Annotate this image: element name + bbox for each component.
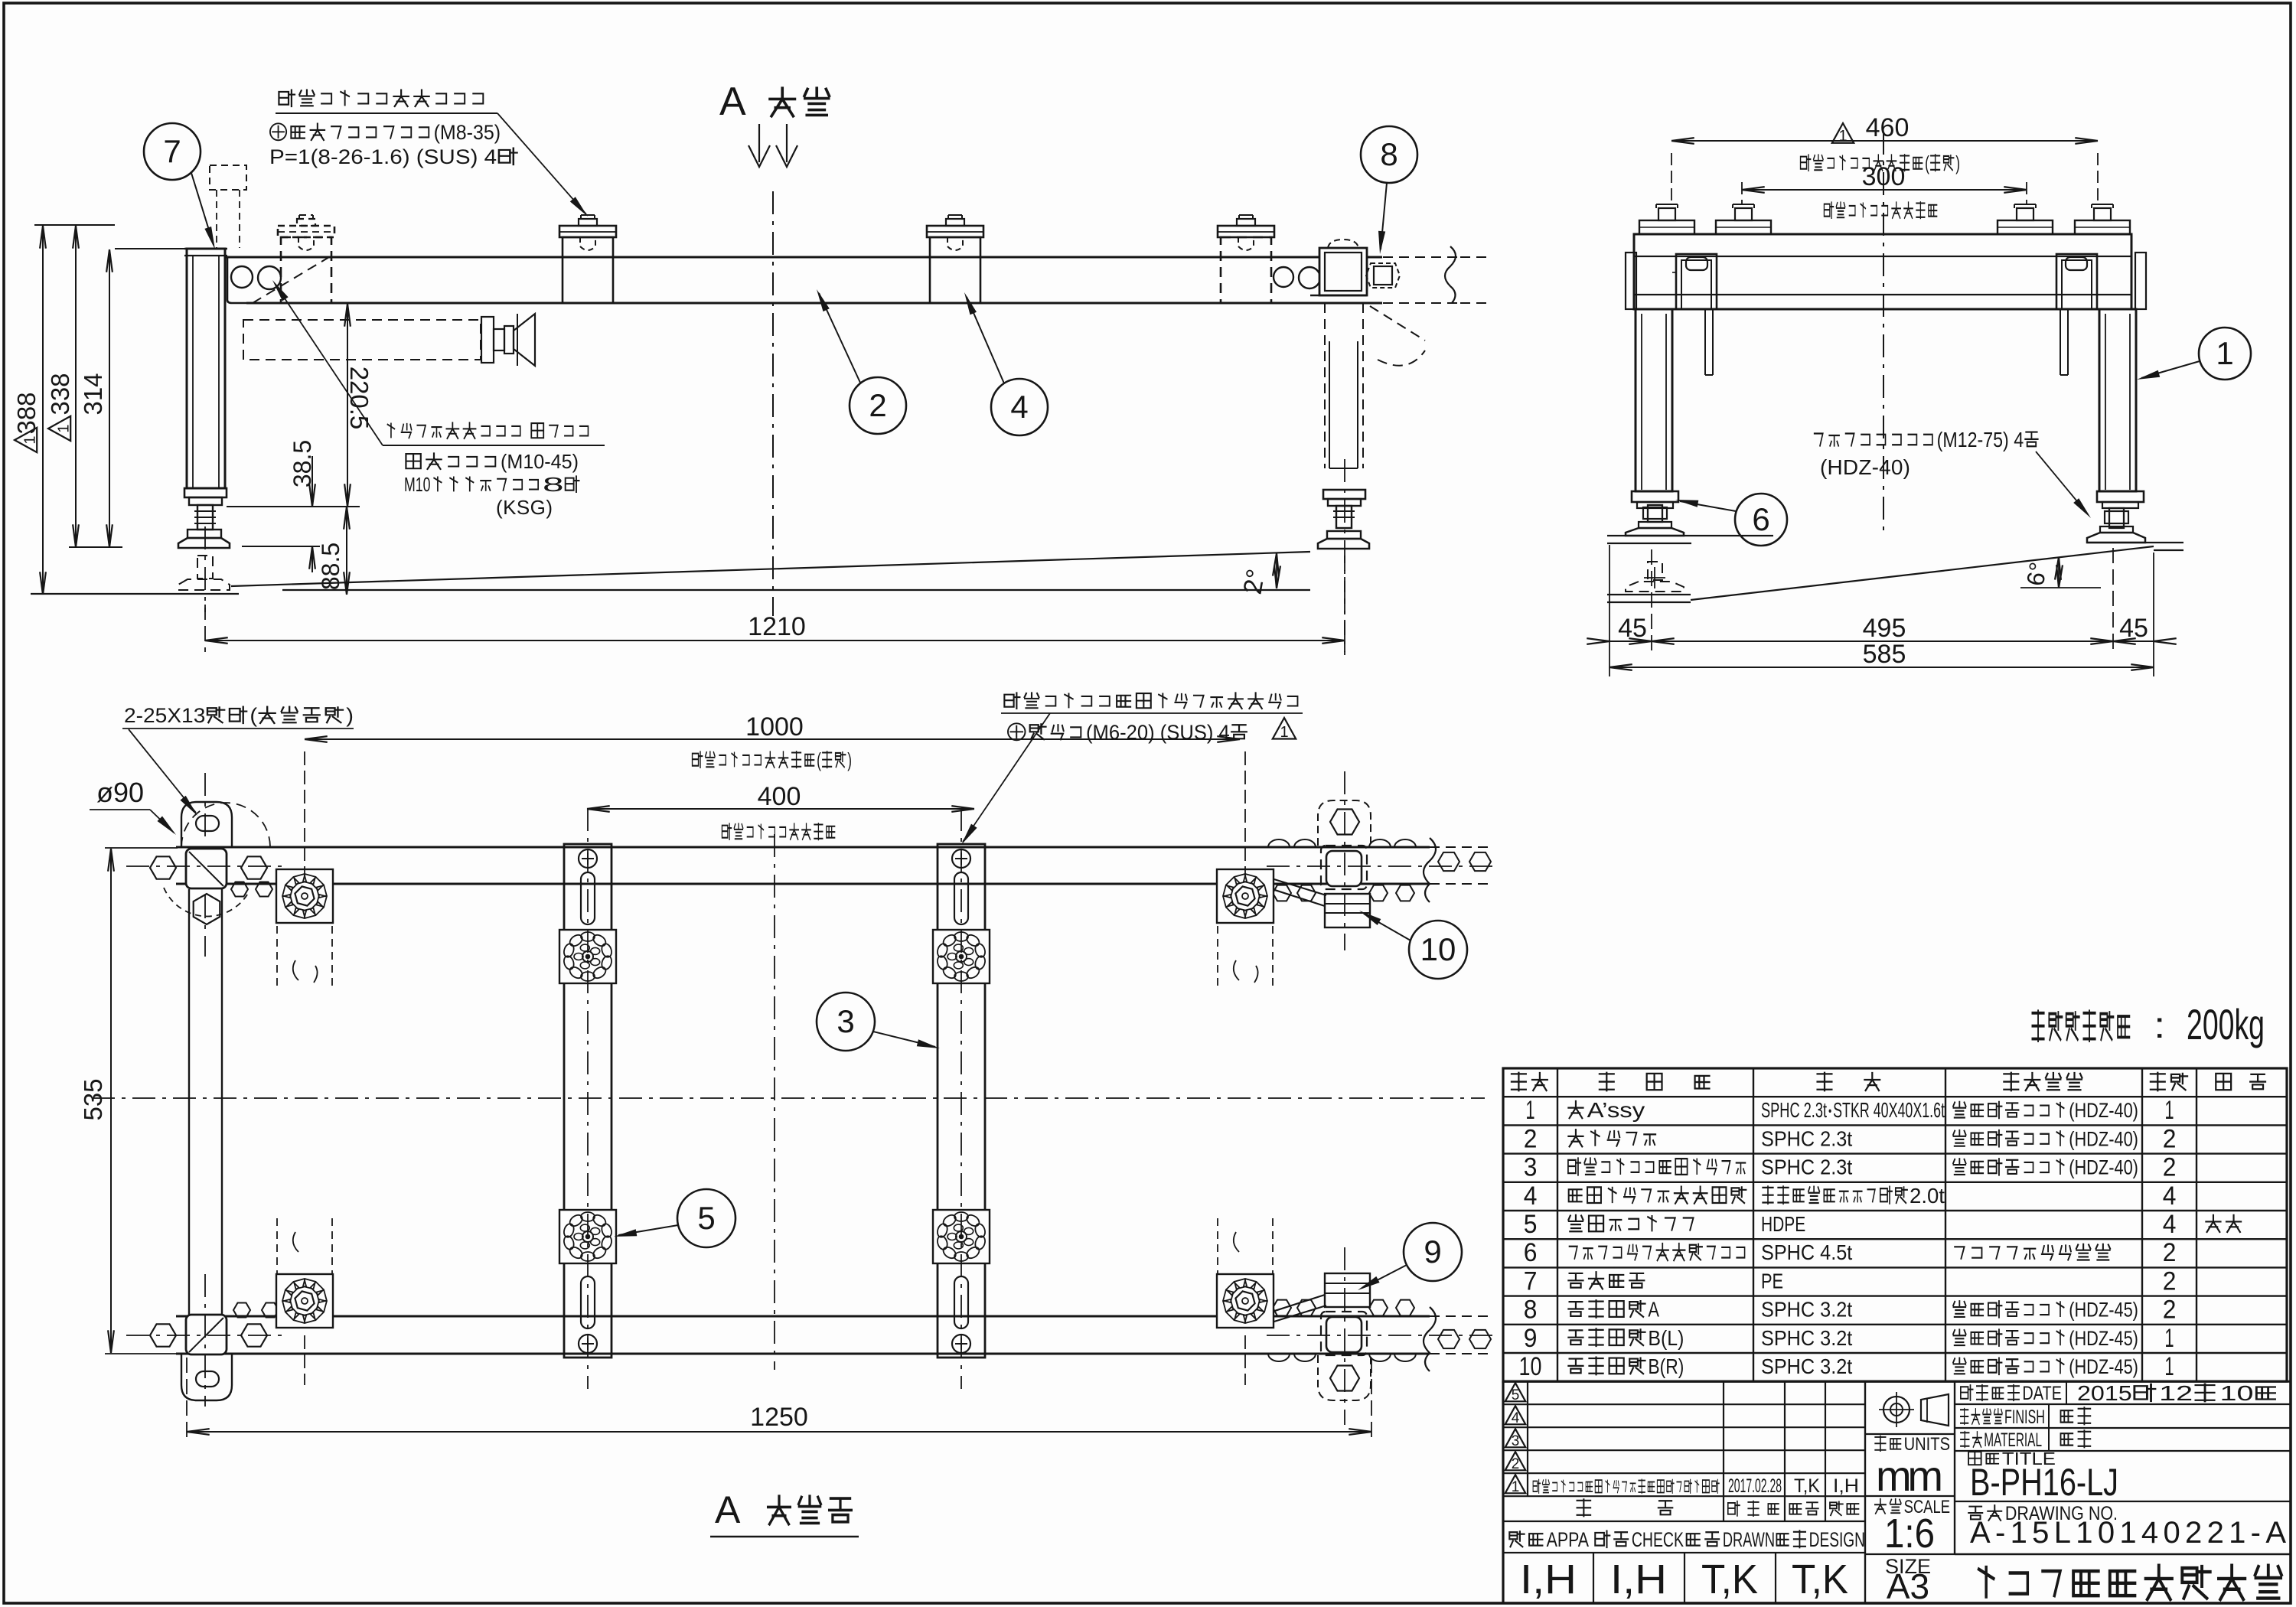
link bracket B(R) part10 xyxy=(1325,894,1370,927)
svg-text:1: 1 xyxy=(1525,1096,1534,1125)
svg-text:4: 4 xyxy=(1512,1410,1520,1426)
leg L foot ghost (tilted position, dashed) xyxy=(197,556,213,579)
max load note xyxy=(2032,1011,2129,1041)
svg-text:SPHC 4.5t: SPHC 4.5t xyxy=(1761,1240,1852,1264)
svg-text:(HDZ-45): (HDZ-45) xyxy=(2069,1356,2138,1379)
svg-text:314: 314 xyxy=(79,373,107,415)
svg-text:38.5: 38.5 xyxy=(289,440,316,487)
plan starburst washers at leg joints xyxy=(276,869,333,923)
front view: section centerline xyxy=(772,191,774,616)
balloon 7 xyxy=(144,123,201,180)
svg-text:(HDZ-40): (HDZ-40) xyxy=(1820,455,1910,479)
svg-text:2: 2 xyxy=(2163,1238,2177,1267)
svg-text:8: 8 xyxy=(1524,1296,1538,1325)
kiji row xyxy=(1577,1499,1591,1516)
svg-text:300: 300 xyxy=(1862,162,1906,191)
plan: yoko-frame top band xyxy=(176,846,1430,849)
side view legs xyxy=(1636,309,1672,491)
svg-text:3: 3 xyxy=(1524,1153,1538,1182)
hidden cap bolt at leg top (dashed) xyxy=(210,165,246,190)
plan hex bolts near left legs xyxy=(150,856,176,878)
plan leg cap bottom-left xyxy=(181,1354,232,1400)
svg-text:8: 8 xyxy=(1380,136,1397,172)
svg-text:9: 9 xyxy=(1424,1234,1441,1270)
dims 45/495/45/585 xyxy=(1609,545,1610,676)
title info rows xyxy=(1955,1380,2291,1382)
svg-text:338: 338 xyxy=(46,373,74,415)
svg-text:ø90: ø90 xyxy=(96,777,144,808)
svg-text:APPA: APPA xyxy=(1547,1528,1590,1551)
svg-text:12: 12 xyxy=(2159,1381,2193,1405)
left leg tube verticals in plan xyxy=(188,889,190,1315)
svg-text:(M10-45): (M10-45) xyxy=(501,450,579,473)
balloon 4 xyxy=(991,379,1048,435)
revision triangles xyxy=(1505,1383,1526,1403)
svg-text:388: 388 xyxy=(12,392,41,434)
balloon 6 xyxy=(1735,494,1787,546)
dim 88.5 xyxy=(346,507,347,595)
svg-text:): ) xyxy=(847,749,852,771)
leg L foot xyxy=(188,530,221,538)
right end frame fixing holes xyxy=(1274,267,1293,287)
svg-text:A: A xyxy=(719,80,746,124)
balloon 1 xyxy=(2199,328,2251,380)
dim 460 xyxy=(1671,153,1672,205)
svg-text:2015: 2015 xyxy=(2077,1381,2132,1405)
svg-text:4: 4 xyxy=(1010,389,1028,425)
svg-text:M10: M10 xyxy=(404,474,430,496)
svg-text:1000: 1000 xyxy=(745,712,804,742)
svg-text:9: 9 xyxy=(1524,1324,1538,1353)
mounting clamp part4 at x=1248 xyxy=(927,226,983,237)
svg-text:I,H: I,H xyxy=(1833,1475,1859,1497)
svg-text:460: 460 xyxy=(1866,113,1910,142)
svg-text:B(L): B(L) xyxy=(1648,1326,1684,1350)
svg-text:7: 7 xyxy=(163,133,181,169)
svg-text:B(R): B(R) xyxy=(1648,1354,1684,1378)
svg-text:1: 1 xyxy=(1280,724,1288,741)
svg-text:(HDZ-45): (HDZ-45) xyxy=(2069,1299,2138,1322)
company name xyxy=(1979,1566,2281,1599)
balloon 2 xyxy=(850,377,906,434)
stored adjuster bolt (dashed) xyxy=(243,320,481,360)
revision row 1 entry xyxy=(1533,1479,1719,1493)
svg-text:45: 45 xyxy=(1618,614,1647,643)
dim 1250 xyxy=(186,1358,188,1442)
svg-text:(M6-20) (SUS) 4: (M6-20) (SUS) 4 xyxy=(1086,721,1230,744)
svg-text:2017.02.28: 2017.02.28 xyxy=(1728,1475,1782,1497)
svg-text:I,H: I,H xyxy=(1610,1556,1667,1602)
svg-text:5: 5 xyxy=(1524,1210,1538,1239)
svg-text:220.5: 220.5 xyxy=(345,367,373,430)
svg-text:(M12-75) 4: (M12-75) 4 xyxy=(1937,427,2024,451)
svg-text:SPHC 3.2t: SPHC 3.2t xyxy=(1761,1298,1852,1322)
leg L adjuster plate (part6) xyxy=(184,488,227,497)
dim 338 xyxy=(75,226,77,547)
svg-text:3: 3 xyxy=(1512,1433,1520,1449)
svg-text:P=1(8-26-1.6) (SUS) 4: P=1(8-26-1.6) (SUS) 4 xyxy=(269,145,497,168)
plan loading frames (part3) xyxy=(564,844,612,1358)
mounting clamp part4 at x=400 xyxy=(278,226,334,237)
svg-text:2: 2 xyxy=(2163,1296,2177,1325)
svg-text:B-PH16-LJ: B-PH16-LJ xyxy=(1970,1461,2118,1504)
leg L front (part1) xyxy=(187,249,225,488)
hex bolts left joints xyxy=(231,882,248,897)
svg-text:6: 6 xyxy=(1524,1238,1538,1267)
svg-text:A’ssy: A’ssy xyxy=(1587,1098,1645,1122)
label: outdoor unit fixing bolt xyxy=(279,90,483,106)
svg-text:T,K: T,K xyxy=(1792,1556,1848,1602)
svg-text:4: 4 xyxy=(2163,1210,2177,1239)
frame fixing bolt holes xyxy=(231,266,253,288)
label adjust bolt xyxy=(1815,427,2038,451)
parts table xyxy=(1503,1068,2287,1069)
approval headers xyxy=(1509,1528,1589,1551)
plan adjacent-unit leg joints right (dashed) xyxy=(1321,846,1367,889)
svg-text:1: 1 xyxy=(21,435,38,444)
svg-text:(HDZ-40): (HDZ-40) xyxy=(2069,1128,2138,1151)
units/scale/size cells xyxy=(1865,1433,1955,1435)
svg-text:SPHC 3.2t: SPHC 3.2t xyxy=(1761,1354,1852,1378)
title block xyxy=(1502,1381,1504,1603)
svg-text:(: ( xyxy=(817,749,821,771)
svg-text:(: ( xyxy=(249,705,257,728)
svg-text:PE: PE xyxy=(1761,1269,1783,1292)
svg-text:5: 5 xyxy=(697,1200,715,1236)
svg-text:2: 2 xyxy=(2163,1124,2177,1153)
svg-text:2-25X13: 2-25X13 xyxy=(124,705,205,728)
clamp lower tabs side view xyxy=(1704,309,1706,375)
side ground plates xyxy=(1607,535,1773,536)
svg-text:6: 6 xyxy=(1752,501,1769,537)
plan leg cap ears (part7) top-left xyxy=(181,802,232,847)
dim 535 xyxy=(105,847,178,849)
svg-text:MATERIAL: MATERIAL xyxy=(1984,1429,2042,1451)
svg-text:45: 45 xyxy=(2119,614,2148,643)
svg-text:1: 1 xyxy=(2164,1096,2174,1125)
svg-text:2: 2 xyxy=(2163,1266,2177,1296)
svg-text:(HDZ-40): (HDZ-40) xyxy=(2069,1100,2138,1123)
balloon 8 xyxy=(1361,126,1417,183)
svg-text:CHECK: CHECK xyxy=(1632,1528,1684,1551)
leg L centerline xyxy=(204,526,206,612)
svg-text:SPHC 3.2t: SPHC 3.2t xyxy=(1761,1326,1852,1350)
side view: loading frame rail xyxy=(1634,234,2131,309)
dim 220.5 xyxy=(227,506,360,507)
dim 1000 plan xyxy=(305,738,1240,740)
balloon 10 xyxy=(1409,921,1467,979)
svg-text:(HDZ-40): (HDZ-40) xyxy=(2069,1156,2138,1179)
plan: yoko-frame bottom band xyxy=(176,1315,1430,1318)
side leg top fittings xyxy=(1626,253,1636,309)
hex bolts at joints right xyxy=(1273,885,1291,901)
svg-text:A: A xyxy=(715,1488,741,1531)
dim 400 plan xyxy=(587,808,974,810)
side adjusters xyxy=(1632,491,1678,502)
svg-text:A-15L10140221-A: A-15L10140221-A xyxy=(1970,1516,2286,1550)
svg-text:1250: 1250 xyxy=(750,1403,808,1432)
6 deg angle xyxy=(2020,587,2101,588)
svg-text:535: 535 xyxy=(79,1078,107,1120)
ghost diagonal of adjacent unit xyxy=(1370,306,1425,341)
svg-text:SPHC 2.3t: SPHC 2.3t xyxy=(1761,1126,1852,1150)
svg-text:(: ( xyxy=(1925,152,1929,174)
dim 314 xyxy=(115,248,187,249)
mounting clamp part4 at x=768 xyxy=(559,226,616,237)
svg-text:1: 1 xyxy=(2164,1324,2174,1353)
yoko-frame bar (part2) xyxy=(225,256,1382,259)
svg-text:10: 10 xyxy=(1519,1352,1542,1381)
svg-text:SPHC 2.3t: SPHC 2.3t xyxy=(1761,1156,1852,1179)
svg-text:T,K: T,K xyxy=(1701,1556,1758,1602)
svg-text:1210: 1210 xyxy=(748,612,806,641)
ground lines front xyxy=(31,593,239,595)
svg-text:5: 5 xyxy=(1512,1387,1520,1403)
hex bolt on bracket8 xyxy=(1374,266,1392,285)
label flat-head screw xyxy=(1004,693,1297,709)
svg-text:DRAWN: DRAWN xyxy=(1723,1528,1775,1551)
svg-text:1: 1 xyxy=(1838,128,1847,145)
link bracket A (part8) solid at right xyxy=(1328,240,1358,248)
svg-text:4: 4 xyxy=(1524,1182,1538,1211)
dim 388 xyxy=(34,224,115,226)
svg-text:400: 400 xyxy=(758,782,801,811)
projection symbol xyxy=(1883,1397,1910,1423)
svg-text:1:6: 1:6 xyxy=(1884,1511,1935,1556)
svg-text:T,K: T,K xyxy=(1794,1475,1820,1497)
side centerline xyxy=(1883,132,1884,536)
svg-text:2.0t: 2.0t xyxy=(1910,1185,1945,1208)
dim 300 xyxy=(1741,182,1743,205)
dim 38.5 xyxy=(242,546,320,547)
svg-text:10: 10 xyxy=(2220,1381,2254,1405)
2 deg angle xyxy=(1273,553,1277,576)
svg-text:1: 1 xyxy=(2216,335,2233,371)
plan centerlines xyxy=(92,1097,1485,1099)
svg-text:3: 3 xyxy=(837,1003,854,1039)
svg-text:I,H: I,H xyxy=(1520,1556,1577,1602)
plan band breaks xyxy=(1424,838,1436,902)
svg-text:FINISH: FINISH xyxy=(2004,1407,2045,1428)
svg-text:DATE: DATE xyxy=(2022,1383,2062,1404)
plan legs (square tubes) xyxy=(186,849,227,888)
svg-text:88.5: 88.5 xyxy=(317,543,344,590)
svg-text:DESIGN: DESIGN xyxy=(1809,1529,1865,1552)
dim 1210 xyxy=(204,605,206,652)
svg-text:8: 8 xyxy=(543,474,564,496)
side view top bolts xyxy=(1639,220,1694,234)
svg-text:1: 1 xyxy=(2164,1352,2174,1381)
mounting clamp part4 at x=1628 xyxy=(1218,226,1274,237)
bar dashed continuation + break xyxy=(1367,256,1460,258)
svg-text:200kg: 200kg xyxy=(2187,1000,2265,1048)
hidden frame dashes below starbursts xyxy=(276,926,278,989)
svg-text:mm: mm xyxy=(1876,1452,1943,1500)
svg-text:SPHC 2.3t: SPHC 2.3t xyxy=(1761,1099,1827,1123)
svg-text:2: 2 xyxy=(869,387,886,423)
label 2-25X13 slot xyxy=(124,705,354,728)
dome bolts on band edges right xyxy=(1268,839,1290,847)
svg-text:(KSG): (KSG) xyxy=(496,496,553,519)
svg-text:2: 2 xyxy=(2163,1153,2177,1182)
balloon 5 xyxy=(677,1189,735,1247)
svg-text:1: 1 xyxy=(1512,1479,1520,1495)
svg-text:1: 1 xyxy=(55,424,72,432)
svg-text:A3: A3 xyxy=(1887,1566,1929,1606)
leg R front (dashed, part of linked stand) xyxy=(1324,303,1326,468)
svg-text:A: A xyxy=(1648,1298,1659,1322)
svg-text:HDPE: HDPE xyxy=(1761,1212,1805,1236)
svg-text:2: 2 xyxy=(1512,1456,1520,1472)
svg-text:4: 4 xyxy=(2163,1182,2177,1211)
svg-text:2°: 2° xyxy=(1238,567,1271,597)
svg-text:STKR 40X40X1.6t: STKR 40X40X1.6t xyxy=(1833,1099,1945,1123)
plan right band end hexes past break xyxy=(1438,852,1459,871)
leg L adjuster bolt xyxy=(197,505,213,530)
svg-text:6°: 6° xyxy=(2021,560,2053,588)
svg-text:7: 7 xyxy=(1524,1266,1538,1296)
svg-text:(HDZ-45): (HDZ-45) xyxy=(2069,1328,2138,1351)
svg-text:10: 10 xyxy=(1420,931,1456,967)
svg-text:585: 585 xyxy=(1863,640,1906,669)
svg-text::: : xyxy=(2154,1006,2165,1046)
link bracket B(L) part9 xyxy=(1325,1273,1370,1307)
svg-text:2: 2 xyxy=(1524,1124,1538,1153)
svg-text:495: 495 xyxy=(1863,614,1906,643)
svg-text:(M8-35): (M8-35) xyxy=(434,121,501,144)
balloon 3 xyxy=(817,993,875,1051)
label: frame fixing bolt/nut xyxy=(387,422,588,438)
svg-text:): ) xyxy=(346,705,354,728)
svg-text:): ) xyxy=(1955,152,1960,174)
balloon 9 xyxy=(1404,1223,1462,1281)
